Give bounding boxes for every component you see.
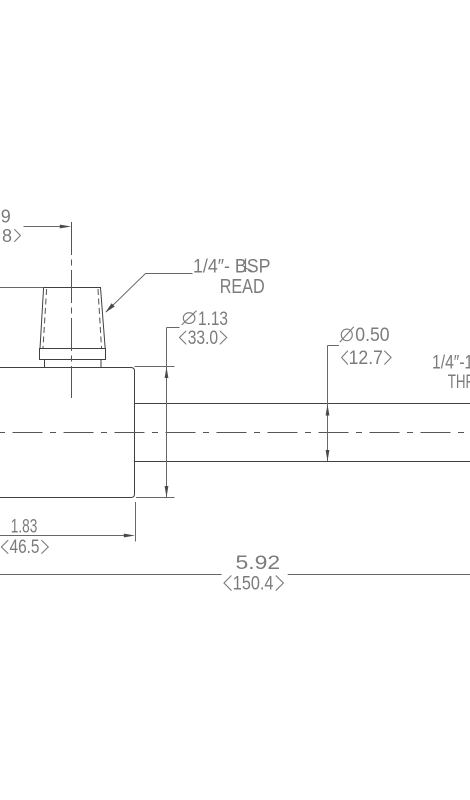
port vertical centerline xyxy=(71,222,73,398)
svg-text:5.92: 5.92 xyxy=(236,553,281,574)
dimension Ø1.13 xyxy=(135,328,180,498)
left leader line to port top corner xyxy=(0,287,43,289)
dim vertical xyxy=(166,328,168,498)
( of (150.4) xyxy=(224,576,231,591)
top-left dimension arrow to port centerline xyxy=(24,225,72,229)
")" of 8) xyxy=(15,230,21,242)
BSP leader line with arrow xyxy=(105,274,192,313)
svg-text:READ: READ xyxy=(220,276,265,298)
body (valve block) rounded right corners xyxy=(0,368,135,498)
( of (46.5) xyxy=(1,540,8,553)
svg-text:THREAD: THREAD xyxy=(448,372,470,393)
) of (33.0) xyxy=(220,331,227,344)
svg-text:1.83: 1.83 xyxy=(11,517,38,538)
shoulder xyxy=(167,327,180,329)
port hidden thread lines (dashed) xyxy=(43,289,102,348)
horizontal centerline xyxy=(0,432,470,434)
svg-text:150.4: 150.4 xyxy=(233,574,274,595)
tube bottom edge xyxy=(135,461,470,463)
( of (12.7) xyxy=(342,351,348,364)
dimension Ø0.50 xyxy=(326,346,339,462)
( of (33.0) xyxy=(180,331,186,344)
svg-text:8: 8 xyxy=(2,226,12,246)
svg-text:0.50: 0.50 xyxy=(355,325,389,346)
extra strokes on B (overlapped glyph artifact) xyxy=(245,259,247,273)
diameter symbol of O0.50 xyxy=(340,327,354,343)
) of (150.4) xyxy=(276,576,283,591)
svg-text:1/4″- BSP: 1/4″- BSP xyxy=(193,256,271,277)
svg-text:33.0: 33.0 xyxy=(188,328,218,349)
port neck xyxy=(45,360,102,368)
dimension 5.92 line xyxy=(0,574,470,576)
diameter symbol of O1.13 xyxy=(182,311,197,325)
svg-text:9: 9 xyxy=(1,206,11,226)
extension top xyxy=(135,366,175,368)
) of (12.7) xyxy=(385,351,392,364)
svg-text:46.5: 46.5 xyxy=(10,537,40,558)
extension bottom xyxy=(136,497,175,499)
svg-text:1.13: 1.13 xyxy=(198,309,228,330)
port tapered plug outline xyxy=(40,288,106,368)
svg-text:12.7: 12.7 xyxy=(349,348,383,369)
) of (46.5) xyxy=(42,540,49,553)
port collar xyxy=(40,349,106,360)
svg-text:1/4″-18: 1/4″-18 xyxy=(432,352,470,373)
dimension 1.83 xyxy=(0,502,136,542)
tube top edge xyxy=(135,403,470,405)
chevron parentheses (CAD style) xyxy=(1,230,391,591)
